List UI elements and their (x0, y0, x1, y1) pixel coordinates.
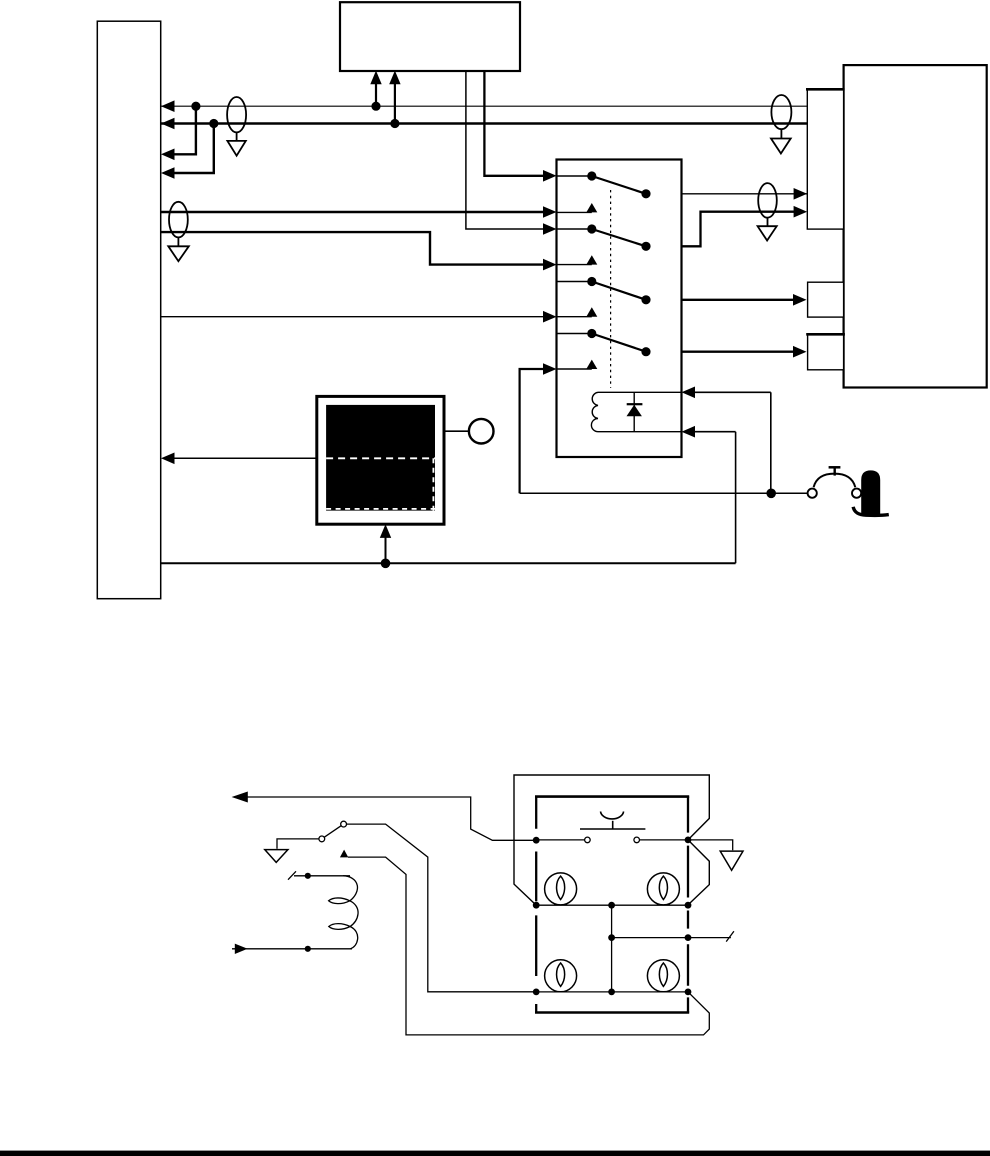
connector block J1 (left tall rectangle) (97, 21, 160, 599)
connector B3 (small rectangle lower right) (806, 334, 845, 370)
wire: stub from line1 down to J1 (y=154.3) (172, 106, 196, 154)
wire: bottom line (y=563.3) from J1 to x=735.6 (161, 562, 736, 564)
wire: line C (y=316.7) J1 to relay input 5 (161, 316, 545, 318)
clockspring block inner rectangle (dashed sides) (535, 797, 689, 1013)
relay flyback diode D1 (627, 392, 643, 431)
horn/sounder HN1 (black dome) (853, 470, 889, 515)
ferrite bead FB2 (oval on lines 1-2 right) (771, 95, 791, 129)
wire: relay output 2 (y=246.3) jog up to B1 (y=211.7) (682, 212, 796, 247)
wire: from A1 bottom (x=484.4) down to relay input 1 (484, 71, 545, 176)
outer wire loop of horn pad (514, 775, 709, 905)
relay internal: pole 1 NO stub (557, 211, 592, 213)
relay coil L2 (spiral) (329, 876, 358, 949)
ground at FB1 (227, 132, 245, 155)
node dot on line 1 at x=376 (371, 102, 380, 111)
lamp/coil symbol T3 (bottom left) (545, 960, 577, 992)
lamp/coil symbol T4 (bottom right) (647, 960, 679, 992)
node dot on line 1 at x=195.9 (191, 102, 200, 111)
relay coil L2 tick (switch mark) (288, 871, 296, 879)
arrow into J1 line 1 (161, 100, 175, 112)
wire: center vertical (611, 905, 613, 992)
relay internal: pole 2 NO contact triangle (586, 255, 597, 264)
wire: coil top lead (294, 875, 350, 877)
relay internal: pole 2 blade (592, 229, 646, 246)
NO contact triangle marker (340, 850, 348, 858)
junction dots of horn pad (533, 837, 540, 844)
wire: triangle contact to outer bottom loop (348, 857, 709, 1035)
wire: coil bottom lead with input arrow (232, 944, 352, 954)
connector B1 (tall small rectangle on left of ECU) (806, 89, 845, 229)
wire: relay coil top feed (y=392.3) with arrow into relay (693, 391, 771, 393)
wire: switch S3 to junction with block (347, 824, 537, 992)
wire: switch S3 hinge to ground (277, 839, 319, 849)
wire: arrow up into black box bottom (385, 533, 387, 563)
junction node at (771.2,493.3) (766, 489, 776, 499)
lamp/coil symbol T2 (top right) (647, 873, 679, 905)
wire: lower lamp row (y=991.9) (536, 991, 688, 993)
ground at horn pad right (720, 851, 743, 870)
horn pushbutton SW2 (580, 812, 645, 843)
relay internal: pole 3 NO stub (557, 316, 592, 318)
connector B2 (small rectangle mid right) (808, 282, 844, 317)
relay internal: pole 2 NO stub (557, 264, 592, 266)
relay internal: pole 1 common stub + dot (557, 175, 592, 177)
ferrite bead FB4 (oval on relay outputs 1-2) (758, 183, 777, 218)
node dot on line 2 at x=213.8 (209, 119, 218, 128)
wire: arrow up from line2 into A1 (394, 80, 396, 124)
arrow into J1 line 2 (161, 118, 175, 130)
ground at FB2 (771, 129, 791, 153)
relay internal: pole 1 NO contact triangle (586, 203, 597, 212)
wire: arrow up from line1 into A1 (375, 80, 377, 106)
ground at FB3 (168, 237, 189, 261)
ground at FB4 (758, 218, 777, 241)
wire: upper lamp row (y=905.2) (536, 904, 688, 906)
wire: black box to J1 (y=458.3) (172, 457, 317, 459)
wire: output arrow top-left (232, 792, 536, 841)
wire: line B (y=232.1) J1, jog down at x=430 to relay input 4 (161, 232, 545, 265)
relay coil (591, 392, 681, 431)
black display module M1 (317, 396, 444, 524)
wire: pushbutton row (536, 839, 584, 841)
wire: from A1 bottom (x=465.9) down to relay input 3 (466, 71, 545, 229)
wire: relay output 3 (y=299.8) to B2 (682, 299, 796, 301)
wire: relay input 6 from pushbutton net (x=519.6) (520, 369, 545, 493)
wire: stub from line2 down to J1 (y=173) (172, 124, 214, 174)
relay internal: ganged actuator dotted line (610, 190, 612, 388)
relay internal: pole 3 common stub + dot (557, 281, 592, 283)
relay internal: pole 4 blade (592, 334, 646, 352)
ECU block U1 (right tall rectangle) (844, 65, 987, 387)
wire: relay output 4 (y=351.7) to B3 (682, 351, 796, 353)
node dot coil bottom (305, 946, 311, 952)
ground at S3 (265, 850, 288, 863)
wire: bus line 2 (y=123.5) from J1 to B1 (161, 122, 807, 124)
module block A1 (top rectangle) (340, 2, 520, 71)
node dot on line 2 at x=394.9 (390, 119, 399, 128)
wire: horizontal y=493.3 from x=519.6 to junction (520, 492, 772, 494)
switch S3 (open switch to ground) (319, 821, 347, 842)
relay internal: pole 4 NO stub (557, 368, 592, 370)
relay internal: pole 4 common stub + dot (557, 333, 592, 335)
relay internal: pole 3 NO contact triangle (586, 307, 597, 316)
footer rule (0, 1151, 990, 1156)
wire: vertical x=735.6 from relay coil bottom line down to y=563.3 (735, 432, 737, 564)
relay K1 outline (557, 160, 682, 458)
ferrite bead FB1 (oval on lines 1-2 left) (227, 97, 246, 132)
pushbutton S2 (horn button) (808, 467, 862, 498)
wire: pushbutton right to ground (688, 840, 733, 850)
relay internal: pole 1 blade (592, 176, 646, 194)
relay internal: pole 4 NO contact triangle (586, 360, 597, 369)
wire: relay coil bottom feed (y=431.7) with arrow into relay (693, 431, 736, 433)
wire junction to pushbutton S2 (771, 492, 808, 494)
relay internal: pole 2 common stub + dot (557, 228, 592, 230)
node dot coil top (305, 873, 311, 879)
wire: bus line 1 (y=106) from J1 to B1 (161, 105, 807, 107)
lamp/coil symbol T1 (top left) (545, 873, 577, 905)
ferrite bead FB3 (oval on lines A-B) (169, 202, 188, 238)
wire: relay output 1 (y=193.8) to B1 through bead (682, 193, 808, 195)
indicator terminal circle P1 (444, 419, 494, 444)
node dot at (385.5,563.3) (381, 559, 391, 569)
relay internal: pole 3 blade (592, 282, 646, 300)
wire: mid tap (y=937.6) with open-switch slash (612, 931, 734, 941)
wire: line A (y=212) J1 to relay input 2 (161, 211, 545, 213)
